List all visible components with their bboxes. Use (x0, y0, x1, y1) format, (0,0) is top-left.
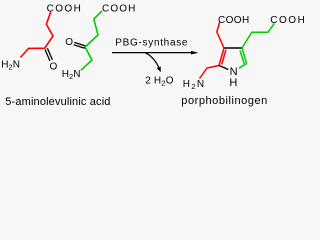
svg-text:COOH: COOH (47, 4, 83, 15)
svg-text:COOH: COOH (270, 15, 304, 26)
svg-text:H: H (229, 77, 237, 89)
svg-text:PBG-synthase: PBG-synthase (115, 37, 188, 48)
svg-text:2 H2O: 2 H2O (145, 76, 174, 88)
svg-text:O: O (65, 37, 73, 48)
svg-text:COOH: COOH (218, 15, 250, 26)
svg-text:O: O (50, 62, 58, 73)
svg-text:5-aminolevulinic acid: 5-aminolevulinic acid (5, 96, 110, 108)
svg-text:COOH: COOH (102, 4, 136, 15)
svg-text:porphobilinogen: porphobilinogen (181, 95, 268, 107)
